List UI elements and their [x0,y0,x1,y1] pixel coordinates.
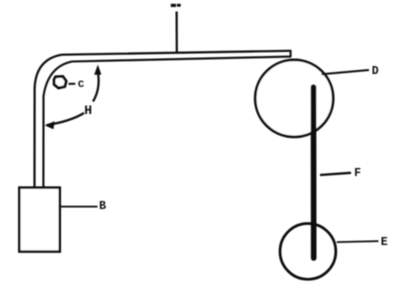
svg-text:C: C [78,79,85,91]
svg-text:B: B [99,200,106,213]
dash to C [69,83,76,85]
pulley D (large circle) [255,60,333,137]
angle arc H lower segment [47,113,84,125]
rod F (thick vertical line) [311,87,317,258]
leader line from label A down to arm tube [176,12,178,53]
part C (small ring on bend) [54,76,66,88]
angle arc H upper segment [93,73,99,102]
leader line to E [337,241,379,242]
leader line to B [61,206,98,208]
arrowhead of arc H at horizontal arm [94,65,101,75]
tube end cap at right [290,50,292,57]
block B (rectangle at bottom of vertical tube) [19,188,60,252]
svg-text:H: H [84,103,92,118]
arm tube outer edge (top of horizontal arm, left of vertical tube) [35,51,291,187]
label A (cropped letter, two serif feet at top) [171,4,176,7]
svg-text:E: E [381,236,388,249]
svg-text:D: D [372,65,379,78]
leader line to D [322,70,370,74]
leader line to F [320,173,351,175]
arrowhead of arc H at vertical tube [45,121,55,129]
arm tube inner edge (bottom of horizontal arm, right of vertical tube) [43,57,290,187]
pulley E (small circle) [280,224,336,280]
svg-text:F: F [354,167,361,180]
